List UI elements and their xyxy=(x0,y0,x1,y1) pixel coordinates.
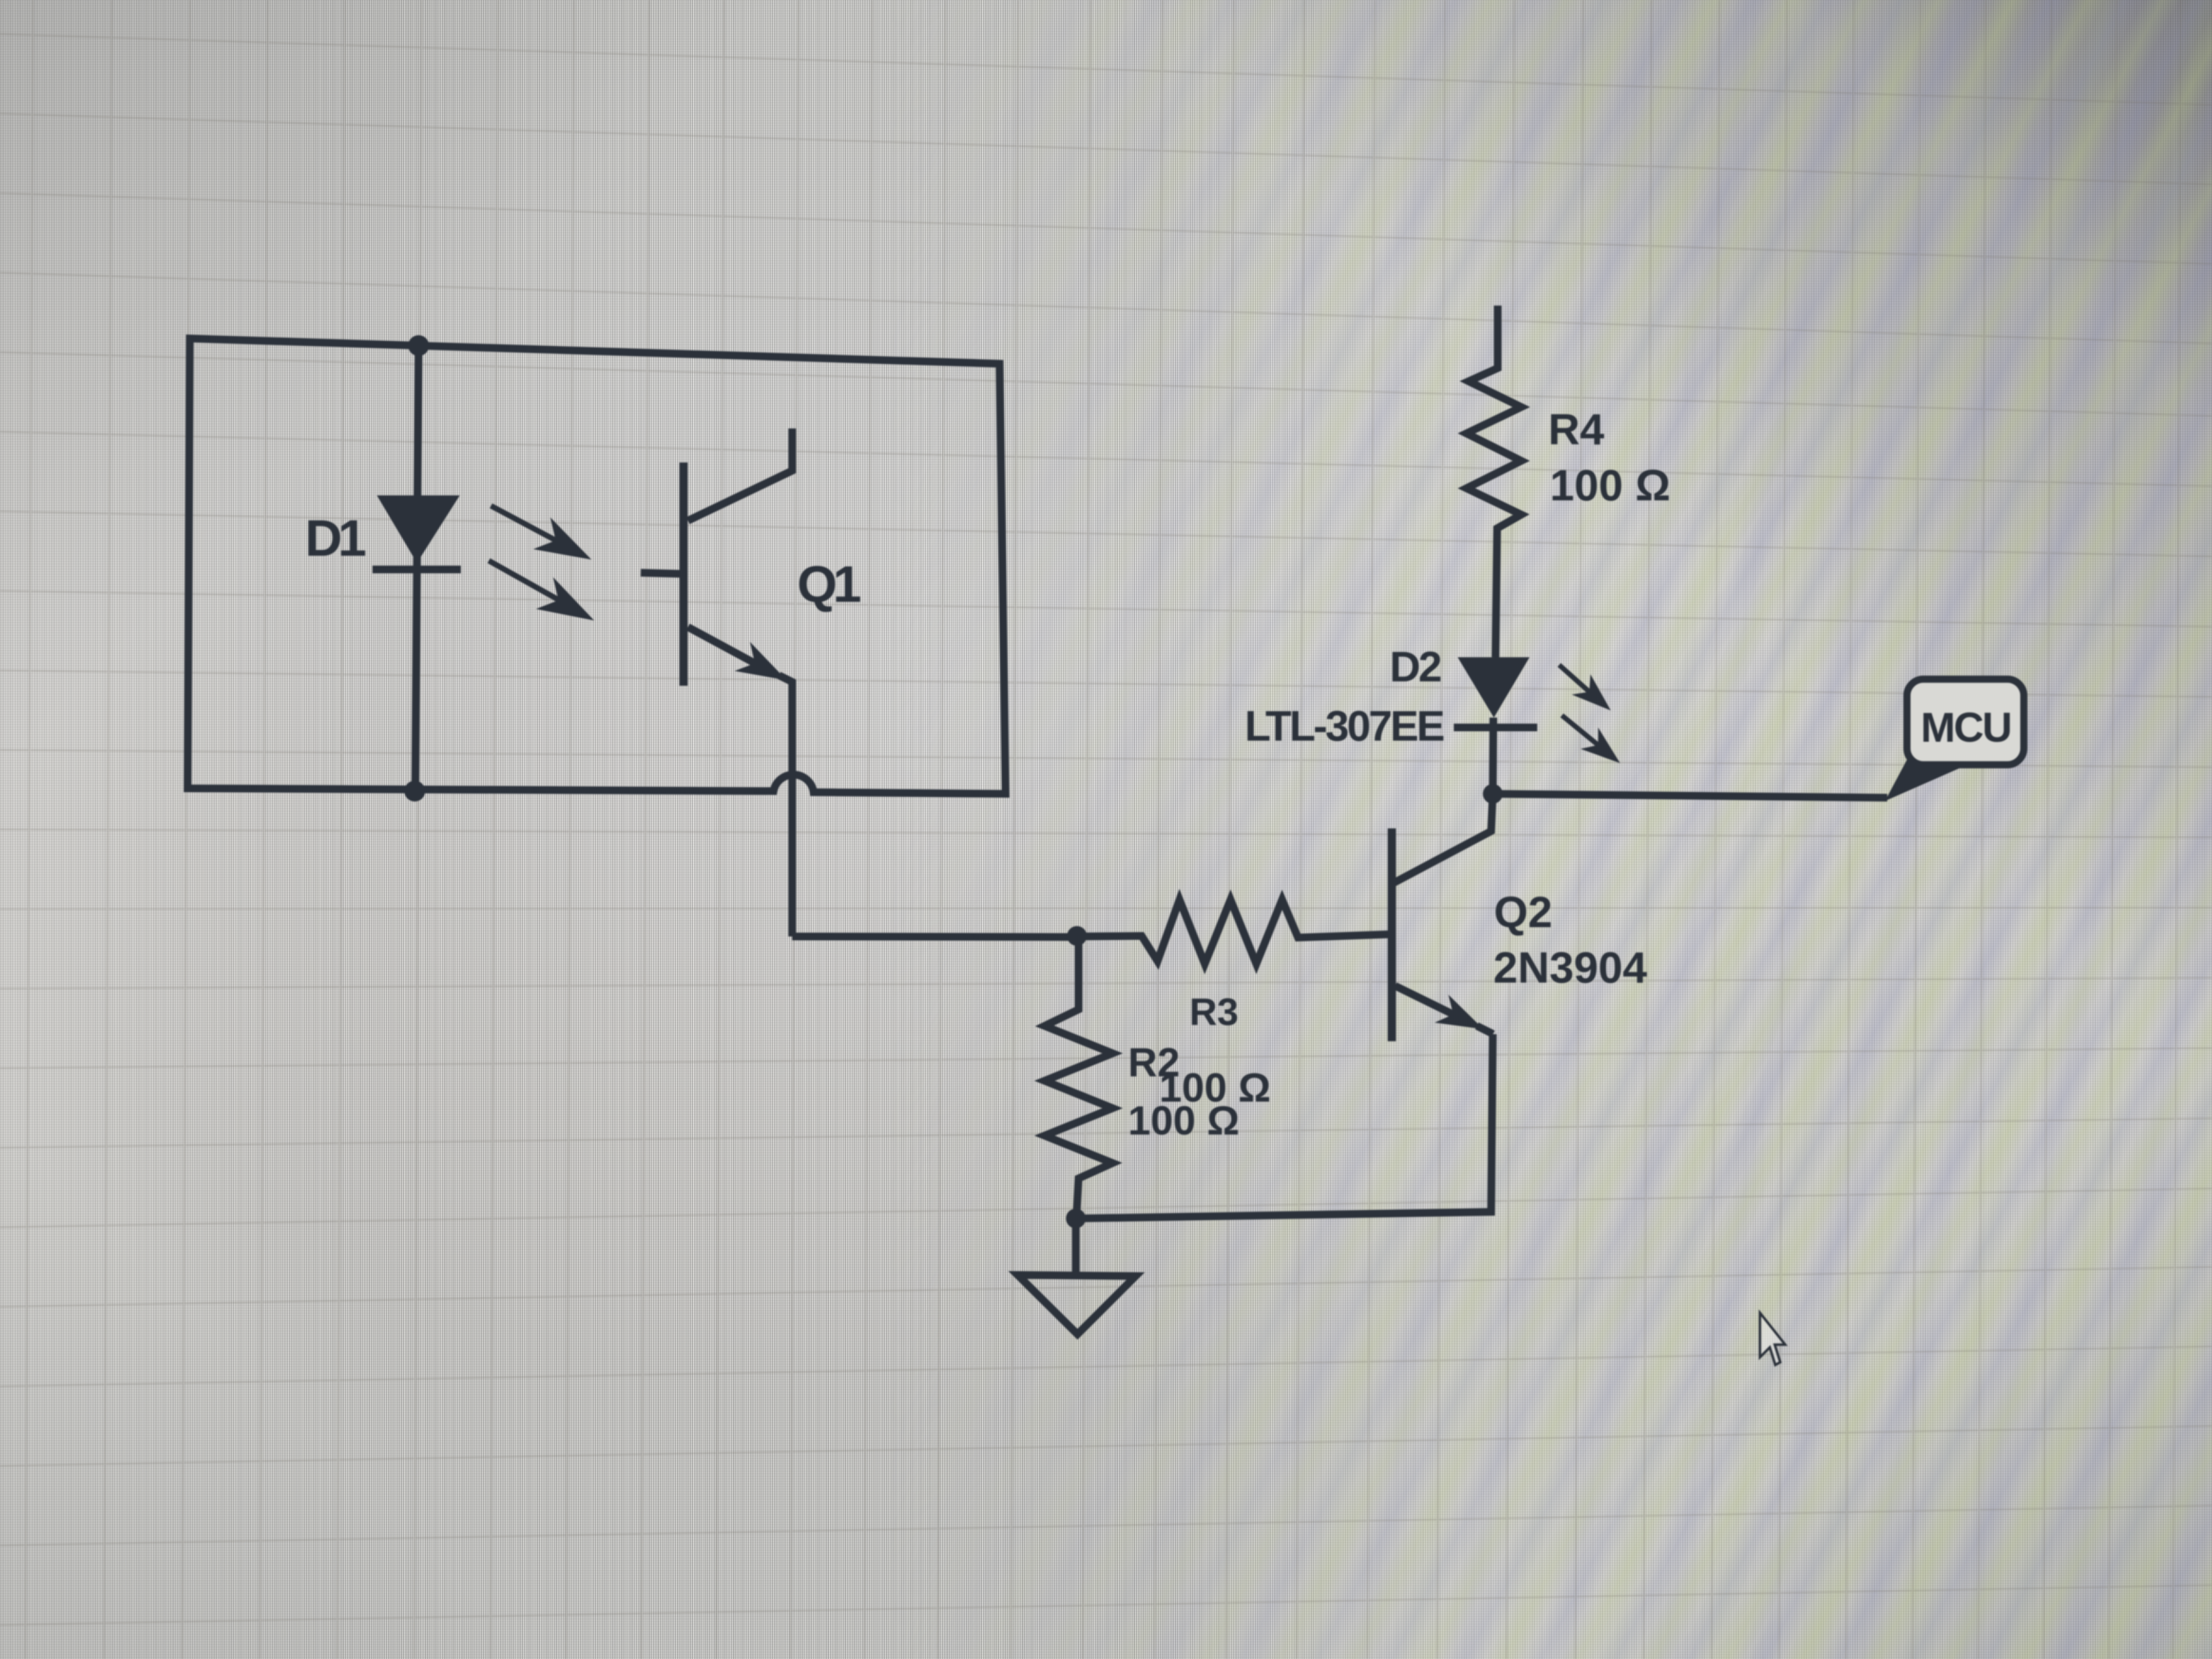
resistor R2 xyxy=(1045,936,1113,1218)
resistor R4 xyxy=(1466,306,1521,657)
ground symbol xyxy=(1018,1275,1136,1334)
optocoupler box U1 xyxy=(188,338,1006,794)
Q2 emitter xyxy=(1395,986,1453,1014)
wire to MCU xyxy=(1493,794,1887,798)
svg-text:2N3904: 2N3904 xyxy=(1493,943,1647,992)
svg-text:MCU: MCU xyxy=(1921,704,2011,751)
D1 light arrow 2 xyxy=(489,561,560,601)
diode D1 xyxy=(377,495,460,563)
Q2 collector xyxy=(1394,794,1493,883)
node bottom junction xyxy=(404,781,425,802)
D2 light arrow 1 xyxy=(1559,665,1589,692)
node R2/R3 junction xyxy=(1067,926,1087,946)
transistor Q2 base bar xyxy=(1388,828,1396,1041)
mouse cursor xyxy=(1760,1313,1785,1365)
svg-text:D1: D1 xyxy=(305,509,365,567)
transistor Q1 base bar xyxy=(680,462,688,686)
node ground junction xyxy=(1066,1209,1086,1228)
D2 light arrow 2 xyxy=(1562,715,1598,745)
svg-text:Q2: Q2 xyxy=(1494,888,1553,936)
svg-text:D2: D2 xyxy=(1390,642,1441,691)
svg-text:R4: R4 xyxy=(1548,405,1605,454)
Q1 collector xyxy=(688,428,792,521)
wire emitter to R2/R3 junction xyxy=(792,936,1075,937)
wire ground stub xyxy=(1072,1218,1080,1274)
svg-text:100 Ω: 100 Ω xyxy=(1550,461,1671,510)
wire D1 vertical xyxy=(415,346,419,791)
resistor R3 xyxy=(1077,900,1390,964)
diode D2 xyxy=(1458,657,1530,718)
Q1 base stub xyxy=(641,573,682,574)
node top junction xyxy=(408,335,429,356)
svg-text:LTL-307EE: LTL-307EE xyxy=(1245,702,1443,750)
Q1 emitter xyxy=(688,627,755,663)
wire bottom return xyxy=(1076,1034,1493,1218)
D1 light arrow 1 xyxy=(491,506,557,541)
svg-text:Q1: Q1 xyxy=(797,555,860,613)
svg-text:R3: R3 xyxy=(1189,990,1238,1033)
svg-text:100 Ω: 100 Ω xyxy=(1128,1098,1239,1143)
node D2/Q2/MCU junction xyxy=(1483,784,1503,804)
svg-text:R2: R2 xyxy=(1128,1040,1180,1085)
MCU callout bubble xyxy=(1885,749,1967,801)
